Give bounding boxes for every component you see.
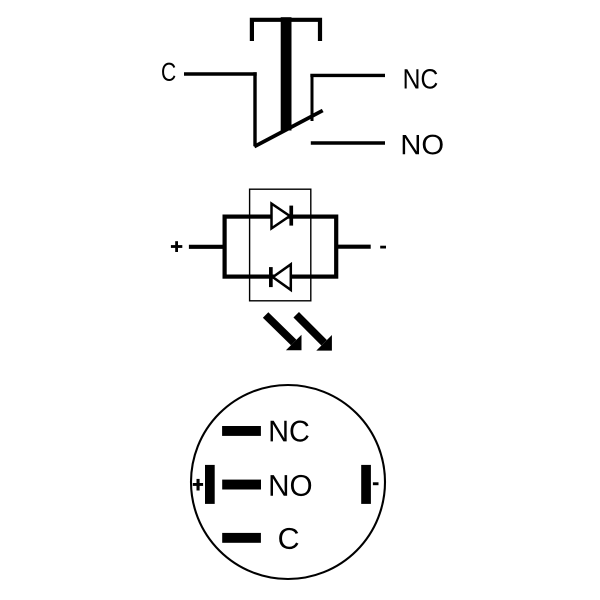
wire C lead [184, 72, 257, 75]
diode D1 triangle [272, 204, 290, 229]
wire NC lead [310, 74, 385, 77]
label C (common) [162, 63, 175, 81]
wire C vertical [253, 72, 256, 146]
terminal NC blade [222, 426, 261, 436]
terminal - blade [361, 465, 371, 504]
wire cathode lead [338, 245, 371, 249]
terminal NO blade [222, 480, 261, 490]
LED parallel wiring frame [225, 217, 337, 277]
button rear view circle [191, 385, 385, 579]
diode D2 triangle [273, 264, 291, 290]
pushbutton plunger [281, 17, 292, 130]
label + (bottom) [193, 483, 203, 486]
LED module box [250, 189, 311, 301]
label C (bottom) [279, 528, 298, 549]
arrow 2 head [316, 335, 332, 351]
wire anode lead [189, 245, 224, 249]
label + (LED anode) [171, 245, 182, 248]
arrow 1 head [286, 335, 302, 351]
wire NC vertical [311, 74, 314, 121]
label - (LED cathode) [380, 246, 386, 249]
arrow 2 shaft [296, 315, 324, 343]
label - (bottom) [373, 482, 379, 485]
label NO [403, 135, 443, 155]
diode D1 cathode bar [289, 206, 293, 226]
label NC (bottom) [271, 420, 309, 441]
terminal + blade [205, 465, 215, 504]
switch moving contact [254, 111, 322, 147]
wire NO lead [311, 141, 385, 144]
pushbutton actuator bracket [252, 20, 320, 41]
arrow 1 shaft [266, 315, 294, 343]
label NC [405, 69, 438, 89]
diode D2 cathode bar [269, 267, 273, 287]
label NO (bottom) [271, 475, 312, 496]
terminal C blade [222, 533, 261, 543]
